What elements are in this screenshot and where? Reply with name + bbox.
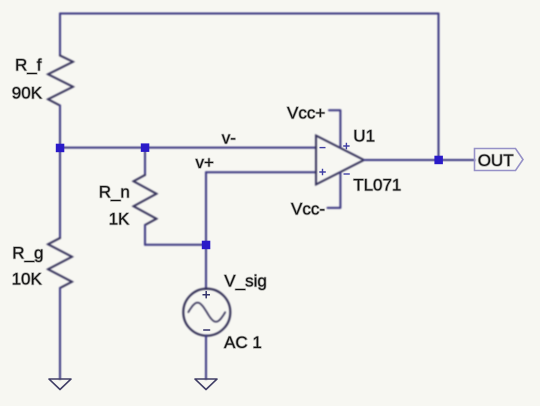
resistor R_f	[48, 56, 73, 106]
wire R_n top lead	[144, 148, 146, 175]
svg-text:v-: v-	[222, 129, 236, 148]
wire top feedback horizontal	[60, 13, 439, 15]
wire output	[364, 159, 475, 161]
pin Vcc+ stub	[329, 110, 340, 147]
wire to R_g	[59, 148, 61, 238]
resistor R_g	[48, 238, 72, 288]
svg-text:R_f: R_f	[15, 56, 42, 75]
wire R_n to source node	[145, 244, 206, 246]
pin + non-inverting input mark	[319, 169, 326, 176]
svg-text:OUT: OUT	[478, 151, 514, 170]
pin - supply mark	[344, 173, 350, 175]
pin + supply mark	[343, 143, 349, 149]
wire v- rail	[60, 147, 316, 149]
svg-text:v+: v+	[196, 153, 215, 172]
svg-text:TL071: TL071	[353, 176, 401, 195]
pin - inverting input mark	[320, 147, 326, 149]
pin - of V_sig	[203, 329, 210, 331]
wire v+ horizontal	[206, 171, 316, 173]
svg-text:90K: 90K	[12, 84, 43, 103]
svg-text:AC 1: AC 1	[224, 333, 262, 352]
junction node at V_sig top	[202, 241, 211, 250]
wire right feedback vertical	[438, 14, 440, 161]
svg-text:1K: 1K	[109, 209, 130, 228]
svg-text:V_sig: V_sig	[224, 272, 267, 291]
wire v+ vertical	[205, 172, 207, 245]
wire R_f bottom lead	[59, 106, 61, 149]
svg-text:R_n: R_n	[99, 182, 130, 201]
svg-text:Vcc+: Vcc+	[287, 104, 325, 123]
svg-text:Vcc-: Vcc-	[291, 200, 325, 219]
wire V_sig to ground	[205, 336, 207, 380]
junction node at R_f / v- rail	[56, 144, 65, 153]
resistor R_n	[134, 175, 157, 225]
wire R_n bottom lead	[144, 225, 146, 245]
source V_sig	[183, 289, 230, 336]
svg-text:R_g: R_g	[12, 243, 43, 262]
svg-text:10K: 10K	[12, 269, 43, 288]
pin + of V_sig	[203, 291, 211, 298]
wire node to V_sig	[205, 245, 207, 289]
wire R_g to ground	[59, 288, 61, 379]
op-amp U1	[316, 136, 364, 185]
junction node at R_n top	[141, 143, 150, 152]
wire R_f top lead	[59, 14, 61, 56]
port OUT outline	[475, 149, 524, 171]
ground right	[195, 379, 217, 390]
ground left	[49, 379, 71, 390]
junction node at output	[434, 156, 443, 165]
svg-text:U1: U1	[353, 126, 375, 145]
pin Vcc- stub	[328, 173, 341, 208]
